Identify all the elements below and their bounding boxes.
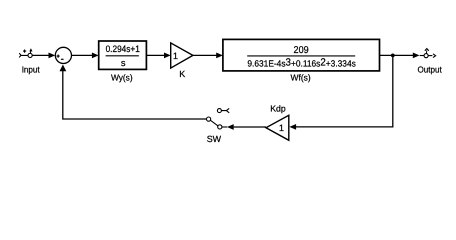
svg-text:1: 1 [279, 123, 284, 133]
svg-text:Wy(s): Wy(s) [111, 73, 133, 83]
arrowhead into switch [227, 124, 234, 130]
output port Output (icon: circle with up arrow and chevron) [420, 49, 436, 58]
wire K to Wf [193, 54, 217, 56]
svg-text:Input: Input [22, 64, 41, 74]
svg-text:SW: SW [207, 134, 222, 144]
transfer function block Wf [223, 39, 380, 71]
contact terminal (top, open throw) [217, 109, 221, 113]
arrowhead into Wf [216, 53, 223, 59]
wire stub arrowhead to switch contact [222, 126, 227, 128]
switch lever [210, 120, 218, 126]
wire Input to summing junction [32, 54, 49, 56]
transfer function block Wy [99, 41, 147, 69]
svg-text:9.631E-4s3+0.116s2+3.334s: 9.631E-4s3+0.116s2+3.334s [247, 58, 356, 69]
sign + (summing input) [57, 55, 60, 58]
svg-text:Kdp: Kdp [270, 104, 286, 114]
input source port Input (icon: chevron, plus, circle with up arrow) [19, 48, 32, 57]
switch SW [207, 108, 230, 129]
wire Wf to output port [380, 54, 414, 56]
svg-text:Output: Output [417, 64, 442, 74]
sign - (feedback input) [61, 58, 64, 60]
wire summing junction to Wy [72, 54, 93, 56]
fraction bar of Wy [106, 55, 139, 57]
arrowhead into summing junction (from below) [60, 65, 67, 72]
arrowhead into Kdp [289, 124, 296, 130]
wire Kdp to switch [234, 126, 266, 128]
arrowhead into K [164, 53, 171, 59]
svg-text:209: 209 [294, 45, 310, 56]
gain block K (triangle) [171, 43, 193, 68]
feedback wire from node down and left to Kdp [296, 55, 393, 127]
fraction bar of Wf [247, 55, 355, 57]
arrowhead into output port [413, 53, 420, 59]
node junction dot (output branch) [391, 54, 395, 58]
contact terminal (left, common) [207, 117, 211, 121]
arrowhead into summing junction [49, 53, 56, 59]
gain block Kdp (triangle, pointing left) [266, 115, 289, 140]
wire Wy to K [146, 54, 164, 56]
svg-text:K: K [179, 69, 185, 79]
open throw stub with fork [221, 108, 229, 112]
svg-text:0.294s+1: 0.294s+1 [106, 43, 140, 54]
contact terminal (right, closed) [218, 125, 222, 129]
svg-text:1: 1 [173, 51, 178, 61]
svg-text:Wf(s): Wf(s) [291, 72, 311, 82]
arrowhead into Wy [92, 53, 99, 59]
svg-text:s: s [121, 57, 126, 68]
feedback wire switch to summing junction [63, 71, 207, 119]
summing junction S1 [55, 47, 71, 63]
